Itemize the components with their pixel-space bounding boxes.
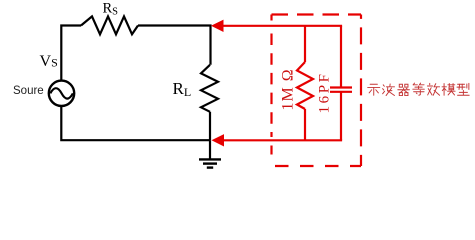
wire: red bottom lead (ground node to oscilloscope model) bbox=[223, 139, 343, 141]
oscilloscope model boundary (red dashed box) bbox=[272, 15, 362, 167]
ground bbox=[209, 140, 211, 158]
wire: 1M resistor branch bottom lead bbox=[304, 109, 306, 140]
wire: red top lead (node A to oscilloscope model) bbox=[222, 25, 342, 27]
wire: capacitor branch top lead bbox=[340, 26, 342, 88]
char 型 bbox=[457, 83, 469, 95]
svg-text:1M Ω: 1M Ω bbox=[280, 68, 297, 110]
char 器 bbox=[398, 84, 410, 95]
wire: 1M resistor branch top lead bbox=[304, 26, 306, 62]
resistor R_L (vertical zigzag) bbox=[201, 65, 218, 112]
svg-text:Soure: Soure bbox=[13, 85, 44, 97]
probe arrow top (red, pointing left at node A) bbox=[211, 20, 224, 32]
wire: capacitor branch bottom lead bbox=[340, 92, 342, 141]
wire: RL bottom lead to ground node bbox=[209, 112, 211, 140]
capacitor 16PF plates bbox=[330, 86, 352, 88]
resistor R_S (zigzag) bbox=[81, 16, 138, 34]
char 波 bbox=[383, 84, 395, 96]
label 示波器等效模型 (oscilloscope equivalent model, drawn as paths) bbox=[368, 83, 470, 95]
wire: top wire right segment (RS to node A) bbox=[138, 26, 211, 65]
char 效 bbox=[427, 83, 439, 95]
svg-text:16PF: 16PF bbox=[317, 71, 333, 113]
char 示 bbox=[368, 84, 380, 95]
char 等 bbox=[413, 83, 425, 95]
wire: top wire left segment (VS top to RS) bbox=[61, 26, 81, 81]
wire: left bottom segment (VS bottom to bottom wire) bbox=[61, 107, 210, 140]
resistor 1MΩ (red vertical zigzag) bbox=[297, 62, 313, 109]
probe arrow bottom (red, pointing left at ground node) bbox=[212, 134, 225, 146]
char 模 bbox=[442, 84, 455, 96]
svg-text:VS: VS bbox=[40, 53, 58, 70]
source VS (AC source circle) bbox=[49, 81, 74, 106]
